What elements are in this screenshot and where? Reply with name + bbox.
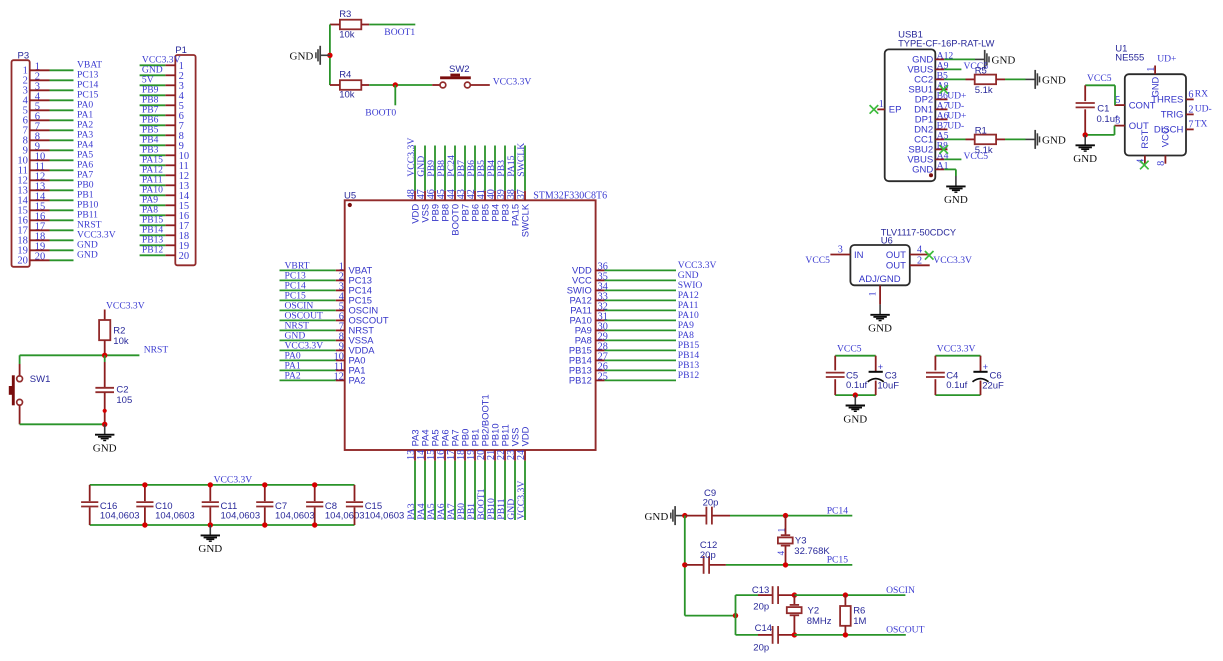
svg-text:7: 7: [1188, 119, 1193, 130]
wire: [605, 319, 676, 321]
junction: [792, 592, 797, 597]
node VBAT: [77, 59, 102, 70]
U5 pin 14 PA4: [416, 429, 430, 460]
U1 pin 3 OUT: [1115, 116, 1149, 132]
node OSCOUT: [886, 625, 925, 636]
node BOOT0: [365, 108, 396, 119]
svg-text:6: 6: [1188, 89, 1193, 100]
wire: [280, 309, 336, 311]
wire: [140, 214, 166, 216]
wire: [434, 461, 436, 520]
wire: [140, 224, 166, 226]
node PB14: [678, 350, 700, 361]
node PB7: [142, 104, 159, 115]
svg-text:BOOT0: BOOT0: [365, 108, 396, 119]
svg-text:105: 105: [116, 395, 132, 406]
wire: [140, 204, 166, 206]
svg-text:22uF: 22uF: [982, 381, 1004, 392]
resistor R4: [330, 70, 369, 101]
U5 pin 8 VSSA: [336, 331, 375, 345]
U1 pin 7 DISCH: [1154, 119, 1194, 135]
U5 pin 48 VDD: [406, 189, 420, 224]
node PC14: [285, 280, 307, 291]
junction: [843, 592, 848, 597]
junction: [102, 422, 107, 427]
node PA12: [142, 164, 163, 175]
node OSCIN: [886, 585, 915, 596]
svg-text:VCC5: VCC5: [805, 255, 830, 266]
wire: [20, 423, 105, 425]
junction: [142, 482, 147, 487]
node VCC3.3V: [106, 300, 145, 311]
svg-text:UD-: UD-: [947, 120, 964, 131]
svg-text:VCC: VCC: [1160, 127, 1171, 147]
svg-text:104,0603: 104,0603: [221, 510, 261, 521]
node PB14: [142, 224, 164, 235]
U5 pin 2 PC13: [336, 271, 372, 285]
svg-text:SWCLK: SWCLK: [519, 203, 530, 237]
node VCC5: [964, 151, 989, 162]
svg-text:VCC5: VCC5: [837, 344, 862, 355]
wire: [280, 269, 336, 271]
node PA1: [77, 109, 93, 120]
node PB13: [142, 234, 164, 245]
svg-text:0.1uf: 0.1uf: [1097, 114, 1118, 125]
svg-text:R5: R5: [975, 66, 987, 77]
node VCC3.3V: [933, 255, 972, 266]
wire: [140, 194, 166, 196]
node PA5: [426, 503, 437, 519]
wire: [50, 169, 74, 171]
U5 pin 31 PA10: [570, 311, 608, 325]
wire: [605, 349, 676, 351]
svg-text:R1: R1: [975, 126, 987, 137]
USB1 pin A8 SBU1: [908, 80, 948, 95]
U5 pin 13 PA3: [406, 429, 420, 460]
wire: [605, 369, 676, 371]
wire: [50, 79, 74, 81]
wire: [514, 461, 516, 520]
svg-text:104,0603: 104,0603: [325, 510, 365, 521]
U5 pin 32 PA11: [570, 301, 608, 315]
svg-text:SWCLK: SWCLK: [516, 143, 527, 177]
ground: [1026, 130, 1066, 149]
node UD-: [1195, 104, 1212, 115]
node VCC3.3V: [493, 76, 532, 87]
node GND: [678, 270, 699, 281]
capacitor C6: [973, 356, 1005, 395]
wire: [1005, 138, 1026, 140]
wire: [514, 146, 516, 191]
node PB7: [456, 160, 467, 177]
wire: [504, 461, 506, 520]
node PA6: [77, 159, 93, 170]
wire: [484, 461, 486, 520]
U5 pin 3 PC14: [336, 281, 372, 295]
U5 pin 24 VDD: [516, 426, 530, 460]
wire: [685, 615, 736, 617]
wire: [944, 158, 961, 160]
wire: [944, 68, 961, 70]
svg-text:10k: 10k: [113, 336, 129, 347]
wire: [50, 119, 74, 121]
svg-text:NRST: NRST: [144, 344, 169, 355]
junction: [312, 522, 317, 527]
wire: [50, 109, 74, 111]
svg-text:GND: GND: [93, 443, 117, 455]
U5 pin 21 PB10: [486, 423, 500, 460]
wire: [50, 129, 74, 131]
U5 pin 43 PB7: [456, 189, 470, 222]
U5 pin 22 PB11: [496, 424, 510, 461]
wire: [140, 74, 166, 76]
node PA4: [77, 139, 93, 150]
svg-text:THRES: THRES: [1151, 95, 1183, 106]
U5 pin 37 SWCLK: [516, 189, 530, 237]
wire: [50, 139, 74, 141]
junction: [792, 632, 797, 637]
svg-text:NE555: NE555: [1115, 52, 1144, 63]
node PB5: [142, 124, 159, 135]
wire: [280, 339, 336, 341]
U5 pin 16 PA6: [436, 429, 450, 460]
wire: [280, 379, 336, 381]
svg-text:GND: GND: [1073, 153, 1097, 165]
U5 pin 5 OSCIN: [336, 301, 379, 315]
svg-text:104,0603: 104,0603: [275, 510, 315, 521]
wire: [280, 319, 336, 321]
svg-text:TYPE-CF-16P-RAT-LW: TYPE-CF-16P-RAT-LW: [898, 38, 994, 48]
svg-text:GND: GND: [843, 413, 867, 425]
U5 pin 35 VCC: [572, 271, 608, 285]
junction: [102, 353, 107, 358]
svg-text:RST: RST: [1140, 129, 1151, 148]
node PB1: [77, 189, 94, 200]
wire VCC3.3V rail: [90, 484, 355, 486]
node GND: [416, 156, 427, 177]
node 5V: [142, 74, 154, 85]
svg-text:5.1k: 5.1k: [975, 85, 993, 96]
svg-text:GND: GND: [77, 249, 98, 260]
svg-text:VCC3.3V: VCC3.3V: [516, 481, 527, 520]
svg-text:GND: GND: [644, 511, 668, 523]
switch SW2: [432, 64, 490, 88]
node PB15: [142, 214, 164, 225]
U1 pin 4 RST: [1136, 129, 1151, 163]
wire: [434, 146, 436, 191]
wire: [280, 289, 336, 291]
U5 pin 6 OSCOUT: [336, 311, 389, 325]
node VCC5: [1087, 73, 1112, 84]
node PA9: [678, 320, 694, 331]
node GND: [77, 249, 98, 260]
resistor R2: [99, 310, 129, 356]
svg-text:20: 20: [17, 255, 28, 266]
ground: [1073, 135, 1097, 165]
node PB10: [77, 199, 99, 210]
wire: [1085, 85, 1115, 105]
capacitor C3: [868, 356, 900, 395]
capacitor C12: [685, 540, 726, 574]
node GND: [77, 239, 98, 250]
wire: [605, 329, 676, 331]
node PA3: [77, 129, 93, 140]
wire: [329, 25, 331, 86]
node PB3: [142, 144, 159, 155]
wire: [444, 461, 446, 520]
capacitor C2: [95, 355, 132, 424]
node PB1: [466, 503, 477, 520]
wire: [735, 595, 737, 635]
node PA6: [436, 503, 447, 519]
svg-text:4: 4: [776, 550, 786, 555]
U5 pin 39 PB3: [496, 189, 510, 222]
svg-text:C1: C1: [1097, 103, 1109, 114]
resistor R6: [840, 595, 866, 635]
svg-text:4: 4: [917, 245, 922, 256]
node PC14: [827, 505, 849, 516]
wire: [280, 359, 336, 361]
ground: [843, 395, 867, 425]
wire: [414, 461, 416, 520]
wire: [605, 339, 676, 341]
wire: [605, 359, 676, 361]
junction: [682, 562, 687, 567]
capacitor C14: [753, 623, 794, 654]
junction: [208, 482, 213, 487]
wire: [50, 219, 74, 221]
node PA15: [506, 155, 517, 176]
node PA10: [678, 310, 699, 321]
svg-text:Y2: Y2: [808, 605, 820, 616]
wire: [140, 114, 166, 116]
svg-text:U6: U6: [881, 235, 893, 246]
wire: [414, 146, 416, 191]
capacitor C8: [306, 485, 364, 525]
U5 pin 47 VSS: [416, 189, 430, 223]
capacitor C4: [926, 356, 968, 395]
node PB6: [142, 114, 159, 125]
U5 pin 38 PA15: [506, 189, 520, 226]
node VCC5: [837, 344, 862, 355]
U5 pin 45 PB8: [436, 189, 450, 222]
node PA0: [77, 99, 93, 110]
wire: [50, 189, 74, 191]
ground: [93, 424, 117, 454]
svg-text:OSCOUT: OSCOUT: [886, 625, 925, 636]
U5 pin 10 PA0: [334, 351, 366, 365]
wire: [140, 154, 166, 156]
node GND: [506, 499, 517, 520]
ground: [975, 50, 1015, 69]
svg-text:+: +: [983, 362, 988, 372]
wire: [50, 69, 74, 71]
svg-text:2: 2: [917, 255, 922, 266]
svg-text:VCC3.3V: VCC3.3V: [937, 344, 976, 355]
node PB12: [678, 370, 700, 381]
wire: [140, 104, 166, 106]
node VCC5: [964, 61, 989, 72]
wire GND rail: [90, 524, 355, 526]
svg-text:1: 1: [1146, 67, 1157, 72]
capacitor C13: [752, 585, 795, 613]
junction: [733, 613, 738, 618]
node PB12: [142, 244, 164, 255]
wire: [20, 354, 140, 356]
capacitor C7: [256, 485, 314, 525]
node PA1: [285, 360, 301, 371]
node PB3: [496, 160, 507, 177]
node PA11: [142, 174, 163, 185]
capacitor C10: [136, 485, 194, 525]
svg-text:PB12: PB12: [569, 375, 592, 386]
node PB9: [142, 84, 159, 95]
svg-text:GND: GND: [912, 165, 933, 176]
node VCC3.3V: [516, 481, 527, 520]
svg-text:104,0603: 104,0603: [100, 510, 140, 521]
U5 pin 19 PB1: [466, 429, 480, 461]
wire: [736, 594, 759, 596]
svg-text:GND: GND: [868, 323, 892, 335]
svg-text:UD-: UD-: [1195, 104, 1212, 115]
wire: [280, 299, 336, 301]
svg-text:R4: R4: [339, 70, 351, 81]
U6 pin ADJ/GND: [859, 274, 901, 304]
node PB13: [678, 360, 700, 371]
svg-text:GND: GND: [1042, 135, 1066, 147]
U5 pin 44 BOOT0: [446, 189, 460, 236]
svg-text:VCC3.3V: VCC3.3V: [933, 255, 972, 266]
node PB8: [436, 160, 447, 177]
junction: [208, 522, 213, 527]
node PB15: [678, 340, 700, 351]
node UD+: [947, 90, 966, 101]
wire: [944, 138, 965, 140]
U5 pin 28 PB15: [569, 341, 608, 355]
svg-text:PC14: PC14: [827, 505, 849, 516]
wire: [454, 146, 456, 191]
connector P3: [12, 51, 50, 267]
U5 pin 1 VBAT: [336, 261, 373, 275]
U5 pin 42 PB6: [466, 189, 480, 222]
svg-text:104,0603: 104,0603: [365, 510, 405, 521]
U5 pin 4 PC15: [336, 291, 372, 305]
node PA0: [285, 350, 301, 361]
microcontroller U5 STM32F330C8T6: [344, 190, 607, 450]
node PA2: [285, 370, 301, 381]
wire: [605, 279, 676, 281]
node PA7: [77, 169, 93, 180]
svg-text:BOOT1: BOOT1: [384, 27, 415, 38]
node PB0: [77, 179, 94, 190]
node PC24: [446, 155, 457, 177]
node PC13: [77, 69, 99, 80]
ground: [868, 304, 892, 334]
capacitor C1: [1076, 85, 1118, 135]
USB1 pin B5 CC2: [914, 70, 948, 85]
node NRST: [285, 320, 310, 331]
junction: [853, 392, 858, 397]
connector USB1 TYPE-CF-16P-RAT-LW: [885, 29, 995, 181]
U5 pin 11 PA1: [334, 361, 366, 375]
no-connect A8: [939, 85, 948, 94]
node OSCOUT: [285, 310, 324, 321]
svg-text:1: 1: [867, 291, 878, 296]
wire: [454, 461, 456, 520]
wire: [140, 244, 166, 246]
resistor R5: [966, 66, 1006, 96]
svg-text:1M: 1M: [853, 616, 866, 627]
svg-text:0.1uf: 0.1uf: [946, 380, 967, 391]
U6 pin 3 IN: [830, 245, 863, 261]
wire: [684, 516, 686, 616]
node PB4: [142, 134, 159, 145]
svg-text:20p: 20p: [753, 643, 769, 654]
svg-text:20p: 20p: [700, 550, 716, 561]
wire: [50, 159, 74, 161]
svg-text:104,0603: 104,0603: [155, 510, 195, 521]
U5 pin 30 PA9: [575, 321, 608, 335]
crystal Y2 8MHz: [787, 595, 832, 635]
wire: [794, 634, 905, 636]
svg-text:OUT: OUT: [886, 261, 906, 272]
wire: [835, 394, 876, 396]
svg-text:10k: 10k: [339, 90, 355, 101]
svg-text:PB12: PB12: [678, 370, 700, 381]
U1 pin 5 CONT: [1115, 95, 1156, 111]
timer U1 NE555: [1115, 44, 1186, 156]
wire: [140, 254, 166, 256]
wire: [730, 515, 852, 517]
junction: [312, 482, 317, 487]
svg-text:PB12: PB12: [142, 244, 164, 255]
node PA2: [77, 119, 93, 130]
no-connect RST: [1140, 161, 1149, 170]
node GND: [285, 330, 306, 341]
junction: [262, 482, 267, 487]
U5 pin 26 PB13: [569, 361, 608, 375]
node SWCLK: [516, 143, 527, 177]
node RX: [1195, 89, 1208, 100]
U5 pin 7 NRST: [336, 321, 375, 335]
node VCC3.3V: [406, 138, 417, 177]
wire: [935, 394, 980, 396]
svg-text:5: 5: [1115, 95, 1120, 106]
wire: [50, 259, 74, 261]
svg-text:24: 24: [516, 450, 527, 460]
svg-text:20p: 20p: [753, 602, 769, 613]
junction: [262, 522, 267, 527]
node VCC3.3V: [285, 340, 324, 351]
svg-text:C13: C13: [752, 585, 769, 596]
wire: [19, 355, 21, 364]
node GND: [142, 64, 163, 75]
svg-text:PC15: PC15: [827, 555, 849, 566]
wire: [605, 379, 676, 381]
node TX: [1195, 119, 1208, 130]
wire: [140, 234, 166, 236]
svg-text:10uF: 10uF: [877, 381, 899, 392]
USB1 pin A4 VBUS: [907, 150, 948, 165]
node PB6: [466, 160, 477, 177]
U5 pin 41 PB5: [476, 189, 490, 222]
U5 pin 34 SWIO: [567, 281, 608, 295]
wire: [484, 146, 486, 191]
wire: [369, 24, 415, 26]
svg-text:VCC3.3V: VCC3.3V: [493, 76, 532, 87]
regulator U6 TLV1117-50CDCY: [850, 227, 956, 285]
wire: [394, 85, 396, 105]
